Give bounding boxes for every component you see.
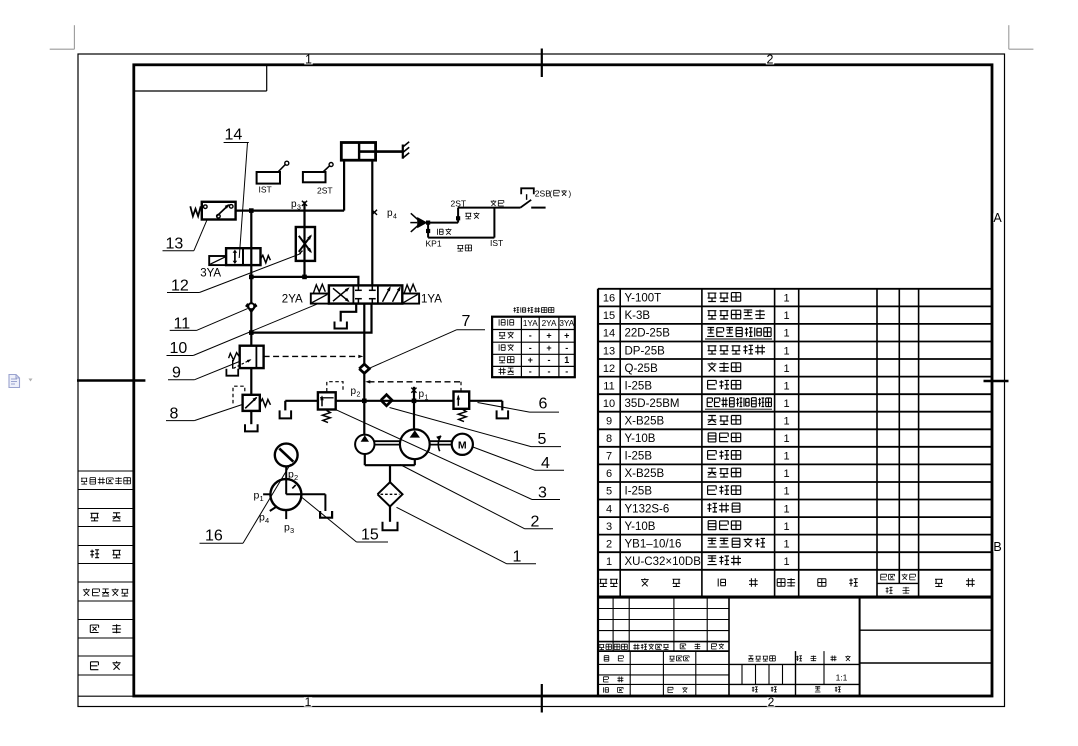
svg-text:12: 12 (603, 363, 615, 375)
svg-text:1: 1 (783, 503, 789, 515)
svg-text:16: 16 (603, 293, 615, 305)
svg-text:-: - (529, 343, 532, 353)
svg-text:Q-25B: Q-25B (625, 363, 659, 375)
svg-text:4: 4 (265, 516, 269, 525)
svg-text:2YA: 2YA (542, 319, 557, 328)
svg-text:X-B25B: X-B25B (625, 468, 665, 480)
svg-text:1: 1 (305, 695, 312, 709)
svg-text:15: 15 (603, 310, 615, 322)
svg-text:1: 1 (783, 433, 789, 445)
svg-text:-: - (548, 366, 551, 376)
svg-text:14: 14 (225, 127, 243, 144)
svg-text:1: 1 (783, 451, 789, 463)
svg-text:1: 1 (783, 416, 789, 428)
svg-text:1: 1 (783, 556, 789, 568)
svg-text:1: 1 (564, 355, 569, 365)
svg-text:DP-25B: DP-25B (625, 345, 666, 357)
svg-text:1: 1 (783, 538, 789, 550)
svg-text:1: 1 (783, 380, 789, 392)
svg-text:YB1–10/16: YB1–10/16 (625, 538, 682, 550)
svg-text:1: 1 (783, 363, 789, 375)
svg-text:M: M (458, 440, 467, 452)
svg-text:2ST: 2ST (317, 186, 333, 196)
svg-text:2: 2 (357, 392, 361, 399)
svg-text:1: 1 (260, 494, 264, 503)
svg-text:2ST: 2ST (451, 199, 467, 209)
svg-text:XU-C32×10DB: XU-C32×10DB (625, 556, 702, 568)
svg-text:11: 11 (603, 380, 614, 392)
svg-text:6: 6 (606, 468, 612, 480)
svg-text:+: + (546, 330, 551, 340)
svg-text:7: 7 (462, 313, 471, 330)
svg-text:I-25B: I-25B (625, 486, 653, 498)
svg-text:3: 3 (538, 485, 547, 502)
svg-text:+: + (546, 343, 551, 353)
svg-text:3: 3 (297, 205, 301, 212)
svg-text:1: 1 (783, 521, 789, 533)
svg-text:(: ( (550, 189, 553, 198)
svg-text:3YA: 3YA (200, 268, 221, 280)
svg-text:12: 12 (171, 278, 189, 295)
svg-text:1: 1 (783, 310, 789, 322)
svg-text:1YA: 1YA (421, 294, 442, 306)
svg-text:8: 8 (170, 406, 179, 423)
svg-text:15: 15 (361, 527, 379, 544)
svg-text:9: 9 (606, 416, 612, 428)
svg-text:-: - (565, 366, 568, 376)
svg-text:3: 3 (606, 521, 612, 533)
svg-text:2: 2 (606, 538, 612, 550)
svg-text:1: 1 (783, 345, 789, 357)
svg-text:5: 5 (606, 486, 612, 498)
svg-text:1: 1 (783, 328, 789, 340)
svg-text:KP1: KP1 (426, 239, 442, 249)
svg-text:-: - (529, 366, 532, 376)
svg-text:1: 1 (606, 556, 612, 568)
svg-text:A: A (993, 211, 1002, 225)
svg-text:6: 6 (539, 396, 548, 413)
svg-text:Y132S-6: Y132S-6 (625, 503, 670, 515)
svg-text:2YA: 2YA (282, 294, 303, 306)
svg-text:I-25B: I-25B (625, 451, 653, 463)
svg-text:10: 10 (603, 398, 615, 410)
svg-text:1: 1 (783, 486, 789, 498)
svg-text:B: B (993, 540, 1001, 554)
svg-text:1: 1 (783, 468, 789, 480)
svg-text:22D-25B: 22D-25B (625, 328, 671, 340)
svg-text:35D-25BM: 35D-25BM (625, 398, 680, 410)
svg-text:-: - (565, 343, 568, 353)
svg-text:1: 1 (783, 293, 789, 305)
svg-text:1: 1 (783, 398, 789, 410)
svg-text:1: 1 (425, 395, 429, 402)
svg-text:1YA: 1YA (523, 319, 538, 328)
svg-text:Y-10B: Y-10B (625, 521, 656, 533)
svg-text:-: - (529, 330, 532, 340)
svg-text:1: 1 (513, 549, 522, 566)
svg-text:5: 5 (538, 431, 547, 448)
svg-text:4: 4 (541, 455, 550, 472)
svg-text:2: 2 (294, 473, 298, 482)
svg-text:2: 2 (531, 514, 540, 531)
svg-text:+: + (528, 355, 533, 365)
svg-text:7: 7 (606, 451, 612, 463)
svg-text:2: 2 (767, 53, 774, 67)
svg-text:1:1: 1:1 (836, 673, 848, 683)
svg-text:I-25B: I-25B (625, 380, 653, 392)
svg-text:9: 9 (172, 365, 181, 382)
svg-text:10: 10 (170, 340, 188, 357)
svg-text:): ) (569, 189, 572, 198)
svg-text:13: 13 (603, 345, 615, 357)
svg-text:-: - (548, 355, 551, 365)
svg-text:+: + (564, 330, 569, 340)
svg-text:13: 13 (166, 236, 184, 253)
svg-text:16: 16 (205, 528, 223, 545)
svg-text:K-3B: K-3B (625, 310, 651, 322)
svg-text:X-B25B: X-B25B (625, 416, 665, 428)
svg-text:4: 4 (606, 503, 612, 515)
svg-text:IST: IST (490, 238, 503, 248)
svg-text:IST: IST (259, 185, 272, 195)
svg-text:4: 4 (393, 214, 397, 221)
svg-text:Y-100T: Y-100T (625, 293, 662, 305)
svg-text:3: 3 (290, 526, 294, 535)
svg-text:8: 8 (606, 433, 612, 445)
svg-text:Y-10B: Y-10B (625, 433, 656, 445)
svg-text:3YA: 3YA (559, 319, 574, 328)
svg-text:1: 1 (305, 53, 312, 67)
svg-text:14: 14 (603, 328, 615, 340)
